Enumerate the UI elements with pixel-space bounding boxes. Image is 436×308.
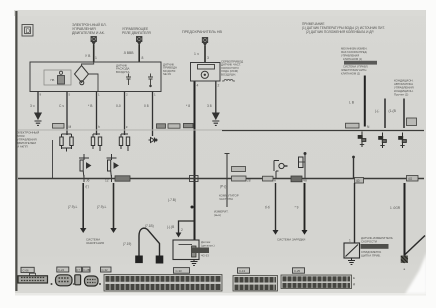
coil symbol below T9 [222, 80, 235, 82]
diode symbol under W5 [149, 132, 158, 143]
bottom connector row: label box B4 [101, 267, 112, 272]
svg-text:12: 12 [105, 179, 109, 183]
injector coil pair 3 under W4 [119, 131, 129, 151]
svg-text:СКОРОСТИ: СКОРОСТИ [361, 240, 377, 244]
svg-text:J6: J6 [86, 179, 90, 183]
svg-text:С-13: С-13 [239, 269, 246, 273]
svg-text:(7.9)-L: (7.9)-L [97, 205, 107, 209]
svg-text:Е: Е [353, 276, 355, 280]
svg-text:4G 63: 4G 63 [201, 254, 209, 258]
motor circle inside ISC box [201, 71, 208, 78]
frame label box D [22, 25, 33, 37]
highlighted designator box in T5 [344, 61, 377, 65]
branch from W6 to coil arrow [179, 221, 195, 233]
bottom connector row: label box B1 [21, 267, 34, 272]
injector coil pair 2 under W3 [91, 131, 101, 151]
svg-text:ВОЗДУШН.: ВОЗДУШН. [221, 72, 236, 76]
label air flow sensor (T7) [116, 64, 130, 74]
svg-text:Чв: Чв [303, 179, 307, 183]
svg-text:И АКПП: И АКПП [17, 145, 28, 149]
svg-text:2: 2 [218, 84, 220, 88]
connector pin table G7 [281, 275, 352, 289]
connector box C-32 on line B [105, 175, 130, 183]
arrow end of IG-A [80, 228, 86, 233]
svg-text:ВОЗДУХА: ВОЗДУХА [116, 70, 130, 74]
power transistor symbol B [107, 154, 119, 178]
thermo switch symbol above line B [274, 161, 288, 179]
page corner (bottom-right white wedge) [405, 252, 427, 294]
label box over G5 [174, 268, 190, 274]
ground symbol at W1 [35, 113, 42, 125]
svg-text:(2) ДАТЧИК ПОЛОЖЕНИЯ КОЛЕНВАЛ: (2) ДАТЧИК ПОЛОЖЕНИЯ КОЛЕНВАЛА И ДР. [306, 30, 374, 34]
svg-text:ПРЕДОХРАНИТЕЛЬ НВ: ПРЕДОХРАНИТЕЛЬ НВ [182, 30, 222, 34]
connector box left of R1 on line A [346, 123, 360, 128]
ignition feed wire IG-A below line B [82, 183, 84, 228]
ignition feed wire IG-B below line B [113, 183, 115, 228]
svg-text:.5 ВВВ: .5 ВВВ [123, 51, 134, 55]
solenoid valve symbol above line B [299, 153, 307, 179]
connector glyph G2 oval [56, 275, 73, 286]
wire W4 [124, 92, 126, 136]
svg-text:3 8: 3 8 [207, 104, 212, 108]
svg-text:У В: У В [85, 54, 91, 58]
svg-text:ЩИТКА ПРИБ.: ЩИТКА ПРИБ. [361, 254, 381, 258]
svg-text:(-(.)В: (-(.)В [167, 225, 174, 229]
svg-text:Прочее (2): Прочее (2) [394, 93, 408, 97]
note text block (primechanie) [302, 22, 385, 34]
svg-text:ЧАСТОТЫ: ЧАСТОТЫ [219, 197, 233, 201]
svg-text:С-2В: С-2В [83, 268, 90, 272]
connector tick on line B at transistor A [84, 175, 90, 183]
power feed connector symbol 3 [202, 38, 207, 46]
svg-text:ФАЗ ГАЗОРАСПРЕД.: ФАЗ ГАЗОРАСПРЕД. [341, 50, 367, 54]
svg-text:С-06: С-06 [23, 269, 30, 273]
svg-text:1 .0GR: 1 .0GR [390, 206, 401, 210]
speed sensor box with diagonal [344, 243, 360, 258]
svg-text:М: М [69, 125, 72, 129]
connector pin table G5 [104, 275, 222, 292]
svg-text:ЗАЖИГАНИЯ: ЗАЖИГАНИЯ [86, 241, 104, 245]
wire W3 [96, 92, 98, 136]
ground symbol at W7 [212, 113, 219, 125]
pin numbers under ECU box [40, 93, 157, 97]
svg-text:С7: С7 [76, 268, 80, 272]
left drop wire to line B [52, 140, 54, 178]
resistor strip inside ISC box [198, 65, 215, 70]
wire: diamond right to internal node [89, 74, 99, 91]
svg-text:С-32: С-32 [102, 268, 109, 272]
bottom connector row: label box B2 [57, 267, 69, 272]
svg-text:УПРАВЛЕНИЯ: УПРАВЛЕНИЯ [341, 54, 359, 58]
wire W5 [152, 92, 154, 137]
ignition coil box [173, 240, 199, 260]
svg-text:(1-(В: (1-(В [389, 109, 397, 113]
shield ground square 2 [156, 256, 164, 264]
label: engine control relay feed (text block T1) [72, 23, 107, 35]
dark designator box in T14 [361, 244, 389, 249]
svg-text:1 ч: 1 ч [194, 52, 199, 56]
connector glyph G4 oval [85, 276, 99, 286]
charging wire CH-B below line B [304, 183, 306, 230]
svg-text:СИСТЕМА ЗАРЯДКИ: СИСТЕМА ЗАРЯДКИ [277, 238, 305, 242]
shield jumper arc to grounds [139, 228, 160, 255]
connector pin table G6 [233, 276, 278, 292]
svg-text:3: 3 [207, 56, 209, 60]
inline connector pair symbol under R3 [399, 133, 407, 149]
svg-text:МЕХАНИЗМ ИЗМЕН.: МЕХАНИЗМ ИЗМЕН. [341, 47, 368, 51]
svg-text:3 ч: 3 ч [30, 104, 35, 108]
svg-text:КЛАПАНОМ (2): КЛАПАНОМ (2) [341, 72, 360, 76]
svg-text:(вых): (вых) [214, 213, 221, 217]
ground symbol under sensor box [348, 258, 355, 265]
comma separators in bottom row [51, 283, 102, 285]
label box over G6 [238, 268, 250, 273]
capacitor symbol 2 inside ECU box [148, 74, 153, 87]
ISC servo box [191, 63, 221, 82]
svg-text:D: D [26, 29, 31, 35]
connector box at W6 on line B [190, 176, 199, 182]
connector box C-35 on line B [263, 176, 277, 182]
dark connector code box at coil [191, 248, 209, 254]
svg-text:28: 28 [247, 179, 251, 183]
svg-text:КЛАПАНОМ (1): КЛАПАНОМ (1) [343, 57, 362, 61]
wire R3 from T6 down to line A [403, 99, 405, 129]
svg-text:С ч: С ч [59, 104, 64, 108]
label: speed sensor (T14) [361, 236, 393, 258]
pin letters right of G7 [353, 276, 355, 286]
dark connector box on line B at solenoid [291, 176, 307, 183]
primary winding line inside coil box [179, 244, 193, 246]
shield ground square 1 [135, 256, 143, 264]
bottom connector row: label boxes B3 pair [76, 267, 82, 272]
connector box on commutator wire [232, 167, 246, 172]
label: control relay (text block T2) [122, 27, 151, 35]
paper bottom shadow [15, 293, 426, 296]
wire W6 from ISC box pin 4 down to ignition coil box [194, 82, 196, 241]
arrow end of CH-A [273, 230, 279, 235]
svg-text:(7.9)-L: (7.9)-L [68, 205, 78, 209]
svg-text:б-б: б-б [265, 206, 270, 210]
svg-text:* 8: * 8 [186, 104, 190, 108]
connector box on W2 crossing [53, 124, 65, 129]
arrow end of IG-B [110, 228, 116, 233]
bus line A [222, 130, 424, 132]
wire: feed1 to diamond top [82, 62, 94, 66]
charging wire CH-A below line B [275, 183, 277, 230]
svg-text:4: 4 [197, 84, 199, 88]
faint continuation of line A to the left [18, 129, 222, 131]
label: coil sensor (T15) [201, 240, 215, 258]
ground symbol under coil box [191, 260, 198, 266]
svg-text:1: 1 [95, 56, 97, 60]
svg-text:РЕЛЕ ДВИГАТЕЛЯ: РЕЛЕ ДВИГАТЕЛЯ [122, 31, 151, 35]
svg-text:SE 09: SE 09 [163, 72, 171, 76]
wire W7 from ISC box pin 2 down to ground [215, 82, 217, 114]
svg-text:н: н [274, 179, 276, 183]
connector code texts in bottom label boxes [23, 268, 301, 273]
svg-text:(детальн.): (детальн.) [201, 244, 215, 248]
wire: feed 2 down into ECU box [138, 45, 140, 63]
heavy ground wire far right [404, 183, 406, 256]
svg-text:С-33: С-33 [176, 269, 183, 273]
wire to vehicle speed sensor below line B [354, 183, 356, 243]
connector box right of W5 [157, 124, 166, 128]
svg-text:(7.19): (7.19) [123, 242, 131, 246]
hatched body-ground square [401, 256, 408, 264]
hatched component inside inner box [51, 71, 65, 84]
svg-text:(7.1В): (7.1В) [145, 224, 154, 228]
label: idle speed servo (T9, right of ISC box) [221, 60, 243, 77]
label box over G7 [293, 268, 305, 273]
label: fuse (text block T3) [182, 30, 222, 34]
ECU / sensor module box [30, 62, 161, 92]
svg-text:(-7.В): (-7.В) [168, 198, 176, 202]
svg-text:h: h [98, 125, 100, 129]
air flow sensor diamond [75, 66, 89, 85]
stub wire with junction above line B right [352, 156, 355, 178]
bus line B [18, 178, 424, 180]
power feed connector symbol 2 [137, 37, 142, 45]
svg-text:L В: L В [349, 101, 355, 105]
svg-text:С-24: С-24 [58, 268, 65, 272]
inline connector pair symbol under R1 [358, 132, 366, 148]
connector box 40 on line B right [355, 178, 364, 184]
svg-text:(г): (г) [86, 185, 89, 189]
injector coil pair 1 under W2 [60, 131, 73, 152]
arrow into ignition coil box [176, 233, 182, 238]
capacitor symbol under T7 [126, 74, 131, 86]
connector box 2 left of W6 [168, 124, 180, 128]
label: module drive sensor (T8, right of ECU box) [163, 63, 177, 77]
text block T5 variable valve timing [341, 47, 369, 76]
page spine (left binding edge) [15, 11, 17, 291]
connector box 3 at W6 [184, 123, 194, 127]
svg-text:ДВИГАТЕЛЕМ И АК.: ДВИГАТЕЛЕМ И АК. [72, 31, 105, 35]
svg-text:ЭЛЕКТРОМАГНИТН.: ЭЛЕКТРОМАГНИТН. [341, 68, 367, 72]
connector box 4G on line B far right [407, 176, 419, 182]
svg-text:(Р-(): (Р-() [220, 185, 226, 189]
junction dot on W6 [191, 206, 194, 209]
connector glyph G1 multi-pin strip [18, 273, 48, 283]
svg-text:4G: 4G [408, 177, 413, 181]
wire W1 from ECU box left edge down [37, 92, 39, 114]
wire to commutator below line A [225, 154, 230, 208]
svg-text:Д: Д [353, 282, 355, 286]
arrow end of CH-B [302, 230, 308, 235]
svg-text:40: 40 [356, 179, 360, 183]
svg-text:* 9: * 9 [295, 206, 299, 210]
svg-text:ПБ: ПБ [51, 78, 55, 82]
text block T6 air conditioner [394, 79, 414, 97]
svg-text:0 8: 0 8 [144, 104, 149, 108]
wire R2 from T6 down to line A [384, 99, 386, 129]
svg-text:8: 8 [142, 56, 144, 60]
label: commutator (T11) [214, 194, 239, 218]
wire: feed 1 down into ECU box [93, 45, 95, 63]
power transistor symbol A [79, 154, 91, 178]
svg-text:(-(-: (-(- [375, 109, 379, 113]
svg-text:С-25: С-25 [294, 269, 301, 273]
label: engine+AT control unit (T10) [17, 131, 39, 149]
label: to ignition system (T12) [86, 238, 104, 246]
svg-text:СИСТЕМА УПРАВЛ.: СИСТЕМА УПРАВЛ. [343, 65, 369, 69]
wire W2 [66, 92, 68, 136]
connector box right of R3 [407, 118, 417, 126]
svg-text:1: 1 [349, 239, 351, 243]
connector box C-28 on line B [232, 176, 251, 183]
inner sub-box inside ECU box [44, 70, 71, 85]
inline connector pair symbol under R2 [379, 133, 387, 149]
diagonal wire off page right [405, 236, 425, 255]
connector glyph G3 small square [75, 275, 81, 285]
coil element inside box [192, 246, 197, 257]
svg-text:0-0: 0-0 [116, 104, 121, 108]
power feed connector symbol 1 [91, 37, 96, 45]
wire: feed 3 down into ISC servo box [204, 46, 206, 64]
wire R1 from T5 down to line A [364, 76, 366, 127]
svg-text:2: 2 [181, 228, 183, 232]
